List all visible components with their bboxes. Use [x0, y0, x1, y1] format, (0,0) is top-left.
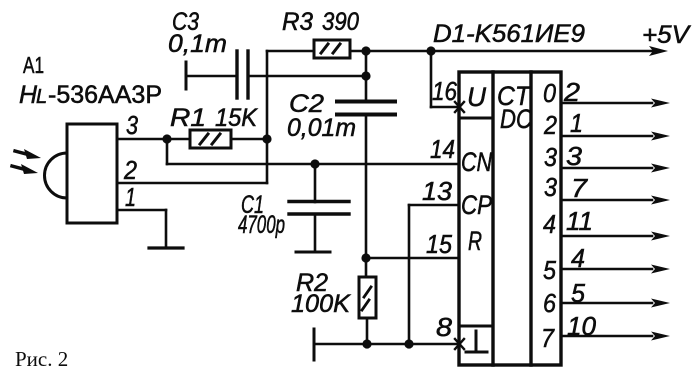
node junction CP/bus — [404, 339, 413, 348]
output wire 1 — [561, 132, 670, 141]
svg-text:0: 0 — [543, 78, 556, 108]
svg-text:CP: CP — [461, 190, 492, 220]
svg-text:D1-K561ИЕ9: D1-K561ИЕ9 — [433, 20, 585, 48]
capacitor C1 — [289, 164, 349, 252]
wire +5V rail — [350, 50, 652, 53]
svg-text:4: 4 — [543, 209, 556, 239]
svg-text:16: 16 — [432, 76, 457, 106]
svg-text:Рис. 2: Рис. 2 — [15, 347, 68, 371]
svg-text:3: 3 — [566, 141, 583, 171]
svg-text:13: 13 — [422, 176, 453, 206]
wire pin3 to R1 — [117, 138, 190, 141]
output wire 4 — [561, 232, 670, 241]
svg-text:15K: 15K — [215, 104, 258, 132]
svg-text:3: 3 — [544, 142, 557, 172]
wire R pin to IC — [366, 257, 459, 260]
svg-text:6: 6 — [543, 288, 556, 318]
light ray arrow 1 — [15, 149, 41, 159]
svg-text:DC: DC — [500, 104, 532, 134]
svg-text:+5V: +5V — [642, 21, 691, 49]
svg-text:U: U — [467, 82, 486, 112]
resistor R1 — [190, 130, 231, 148]
wire CN riser from pin3 node — [166, 139, 169, 164]
svg-text:7: 7 — [541, 323, 555, 353]
svg-text:R1: R1 — [170, 104, 206, 132]
svg-text:0,1m: 0,1m — [168, 30, 227, 58]
capacitor C2 — [337, 102, 395, 115]
wire CP from IC — [409, 205, 459, 344]
IC U1 box D1 K561IE9 — [459, 72, 561, 365]
svg-text:5: 5 — [571, 278, 586, 308]
node junction R1 right — [262, 134, 271, 143]
output wire 3 — [561, 196, 670, 205]
wire riser x267 — [266, 51, 269, 183]
svg-text:L: L — [36, 86, 47, 108]
svg-text:R3: R3 — [282, 8, 313, 36]
svg-text:4700p: 4700p — [238, 211, 285, 239]
svg-text:2: 2 — [123, 155, 137, 185]
wire pin16 — [431, 51, 459, 107]
wire pin1 — [117, 210, 166, 248]
svg-text:3: 3 — [126, 110, 138, 140]
node junction C1 top — [310, 159, 319, 168]
wire C2 bottom lead down — [365, 116, 368, 277]
x mark pin16 — [455, 102, 464, 112]
node junction C3/C2 — [361, 71, 370, 80]
photodetector A1 body — [45, 124, 118, 223]
svg-text:R: R — [468, 226, 482, 256]
node junction pin3 — [162, 134, 171, 143]
svg-text:7: 7 — [571, 173, 589, 203]
svg-text:8: 8 — [436, 312, 453, 342]
ground symbol inside IC — [466, 331, 487, 352]
svg-text:11: 11 — [566, 206, 593, 236]
wire C3 to vertical x366 — [248, 75, 366, 78]
node junction rail/C2 — [361, 46, 370, 55]
wire R2 bottom lead — [366, 318, 369, 344]
svg-text:0,01m: 0,01m — [287, 114, 356, 142]
svg-text:1: 1 — [125, 182, 136, 212]
svg-text:2: 2 — [543, 110, 557, 140]
svg-text:15: 15 — [426, 229, 452, 259]
node junction rail/pin16 — [426, 46, 435, 55]
svg-text:14: 14 — [430, 134, 455, 164]
wire CN line to IC pin 14 — [167, 163, 459, 166]
svg-text:1: 1 — [570, 108, 583, 138]
resistor R2 — [359, 277, 376, 318]
output wire 2 — [561, 164, 670, 173]
output wire 0 — [561, 99, 670, 108]
node junction R pin — [361, 253, 370, 262]
ground bus bottom — [314, 329, 459, 360]
svg-text:A1: A1 — [23, 52, 44, 78]
x mark pin8 — [455, 339, 464, 349]
svg-text:CN: CN — [461, 147, 492, 177]
+5V arrowhead — [649, 46, 668, 56]
svg-text:3: 3 — [544, 172, 557, 202]
wire vertical to C2 — [365, 51, 368, 100]
node junction R2/bus — [362, 339, 371, 348]
light ray arrow 2 — [12, 164, 38, 174]
ground bar A1 — [149, 246, 183, 249]
svg-text:2: 2 — [563, 77, 581, 107]
svg-text:5: 5 — [543, 255, 556, 285]
capacitor C3 — [186, 51, 248, 98]
resistor R3 — [267, 40, 350, 58]
output wire 7 — [561, 332, 670, 341]
output wire 6 — [561, 299, 670, 308]
label HL-536AA3P — [19, 81, 162, 109]
wire R1 right lead — [231, 138, 267, 141]
svg-text:-536AA3P: -536AA3P — [48, 81, 162, 109]
svg-text:390: 390 — [322, 8, 359, 36]
svg-text:10: 10 — [567, 311, 597, 341]
output wire 5 — [561, 265, 670, 274]
svg-text:100K: 100K — [291, 290, 351, 318]
wire pin2 to riser — [117, 182, 267, 185]
svg-text:4: 4 — [571, 243, 585, 273]
